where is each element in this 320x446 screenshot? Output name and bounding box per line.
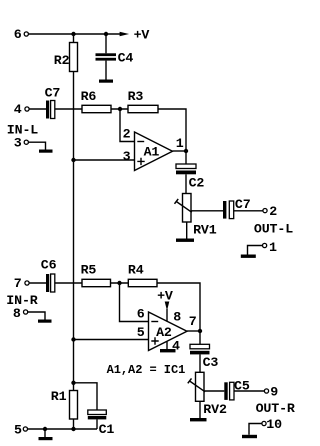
ground at terminal 10 — [242, 424, 262, 439]
wire RV1 to ground — [186, 222, 188, 239]
svg-text:5: 5 — [14, 422, 22, 437]
ground below RV1 — [176, 239, 194, 242]
terminal 5 — [23, 427, 27, 431]
wire pin 4 to ground — [166, 342, 168, 349]
wire junction to pin 2 of A1 — [120, 109, 135, 142]
svg-text:3: 3 — [14, 135, 22, 150]
capacitor C3 — [190, 331, 210, 372]
svg-text:9: 9 — [270, 385, 278, 400]
node junction top rail / R2 — [71, 32, 75, 36]
svg-text:7: 7 — [189, 314, 197, 329]
wire terminal 4 to C7 — [29, 108, 46, 110]
node junction top rail / C4 — [104, 32, 108, 36]
svg-text:4: 4 — [172, 339, 180, 354]
wire C6 to R5 crossing bus — [55, 282, 82, 284]
A2 plus sign — [151, 337, 158, 344]
node junction bus / bottom rail — [71, 427, 75, 431]
A2 minus sign — [151, 321, 158, 323]
A1 minus sign — [137, 141, 144, 143]
svg-text:R4: R4 — [128, 263, 144, 278]
terminal 4 — [25, 107, 29, 111]
ground at terminal 8 — [28, 312, 52, 323]
wire C7 to R6 crossing bus — [55, 108, 82, 110]
wire C1 branch top — [74, 383, 98, 410]
svg-text:3: 3 — [123, 149, 131, 164]
terminal 3 — [24, 140, 28, 144]
node junction R5/R4/pin6 — [117, 281, 121, 285]
capacitor C7 input — [46, 101, 55, 119]
svg-text:R2: R2 — [54, 53, 70, 68]
ground at terminal 3 — [29, 142, 53, 153]
terminal 9 — [264, 389, 268, 393]
resistor R4 — [128, 279, 157, 286]
resistor R1 — [70, 383, 78, 429]
wire RV1 wiper to C7 out — [191, 210, 223, 212]
RV2 wiper arrow — [188, 378, 205, 391]
svg-text:5: 5 — [137, 325, 145, 340]
svg-text:RV1: RV1 — [193, 223, 217, 238]
node junction bus / pin 3 — [71, 158, 75, 162]
node output A2 — [198, 329, 202, 333]
svg-text:C6: C6 — [41, 258, 57, 273]
wire R5 to R4 — [111, 282, 129, 284]
resistor R3 — [128, 105, 158, 112]
node junction bus / pin 5 — [71, 337, 75, 341]
wire C5 to terminal 9 — [234, 390, 264, 392]
wire A1 output to node — [173, 150, 187, 152]
svg-text:1: 1 — [176, 136, 184, 151]
wire junction to pin 6 of A2 — [120, 283, 149, 322]
wire A2 output to node — [187, 330, 200, 332]
capacitor C2 — [176, 151, 196, 194]
svg-text:OUT-R: OUT-R — [256, 401, 295, 416]
wire R3 feedback to output node — [158, 109, 186, 151]
svg-text:C2: C2 — [189, 176, 205, 191]
svg-text:C7: C7 — [235, 197, 251, 212]
svg-text:A1,A2 = IC1: A1,A2 = IC1 — [107, 363, 186, 377]
svg-text:R6: R6 — [81, 89, 97, 104]
ground at bottom rail — [39, 429, 53, 440]
terminal 6 — [24, 32, 28, 36]
terminal 8 — [24, 310, 28, 314]
svg-text:1: 1 — [269, 240, 277, 255]
svg-text:+V: +V — [157, 288, 173, 303]
capacitor C1 — [88, 410, 107, 429]
ground at pin 4 — [160, 349, 176, 352]
node output A1 — [184, 149, 188, 153]
resistor R5 — [82, 279, 111, 286]
+V arrow top — [120, 32, 130, 37]
svg-text:8: 8 — [173, 310, 181, 325]
svg-text:C4: C4 — [118, 51, 134, 66]
RV1 wiper arrow — [175, 199, 192, 212]
svg-text:OUT-L: OUT-L — [254, 221, 293, 236]
svg-text:C1: C1 — [99, 422, 115, 437]
svg-text:7: 7 — [14, 276, 22, 291]
terminal 1 — [263, 243, 267, 247]
resistor R2 — [70, 34, 78, 72]
node junction ground tap — [43, 427, 47, 431]
wire bus to pin 5 of A2 — [74, 339, 149, 341]
node junction bus / R1 / C1 top — [71, 381, 75, 385]
svg-text:2: 2 — [269, 204, 277, 219]
svg-text:RV2: RV2 — [203, 402, 227, 417]
wire left bus R2 bottom down to R1 — [73, 72, 75, 383]
wire C7 out to terminal 2 — [234, 210, 263, 212]
svg-text:6: 6 — [137, 306, 145, 321]
wire bus to pin 3 of A1 — [74, 159, 135, 161]
resistor R6 — [82, 105, 111, 112]
terminal 2 — [263, 209, 267, 213]
svg-text:C7: C7 — [45, 85, 61, 100]
svg-text:C3: C3 — [203, 355, 219, 370]
capacitor C6 — [46, 274, 55, 292]
potentiometer RV2 — [196, 372, 205, 401]
svg-text:10: 10 — [266, 417, 282, 432]
svg-text:R3: R3 — [128, 89, 144, 104]
terminal 7 — [25, 281, 29, 285]
capacitor C4 — [96, 34, 117, 80]
svg-text:IN-R: IN-R — [6, 293, 37, 308]
op-amp A2 — [149, 312, 188, 351]
wire bottom rail terminal 5 to C1 — [28, 428, 97, 430]
wire terminal 7 to C6 — [29, 282, 46, 284]
wire RV2 to ground — [199, 401, 201, 418]
capacitor C7 output — [223, 201, 234, 219]
svg-text:IN-L: IN-L — [7, 122, 38, 137]
+V arrow down to pin 8 — [165, 302, 170, 322]
svg-text:2: 2 — [123, 127, 131, 142]
wire R6 to R3 — [111, 108, 128, 110]
wire RV2 wiper to C5 — [204, 390, 224, 392]
svg-text:8: 8 — [13, 306, 21, 321]
svg-text:A1: A1 — [144, 144, 160, 159]
svg-text:+V: +V — [134, 27, 150, 42]
wire R4 feedback to output node — [157, 283, 200, 331]
terminal 10 — [262, 421, 266, 425]
svg-text:6: 6 — [14, 27, 22, 42]
svg-text:R1: R1 — [51, 389, 67, 404]
potentiometer RV1 — [183, 194, 192, 223]
A1 plus sign — [137, 158, 144, 165]
ground below C4 — [99, 80, 113, 83]
op-amp A1 — [135, 132, 173, 171]
ground below RV2 — [190, 418, 207, 421]
node junction R6/R3/pin2 — [118, 107, 122, 111]
svg-text:A2: A2 — [156, 325, 172, 340]
wire top rail from terminal 6 to +V — [29, 33, 120, 35]
ground at terminal 1 — [241, 246, 262, 258]
svg-text:R5: R5 — [81, 263, 97, 278]
capacitor C5 — [224, 382, 234, 400]
svg-text:4: 4 — [14, 102, 22, 117]
